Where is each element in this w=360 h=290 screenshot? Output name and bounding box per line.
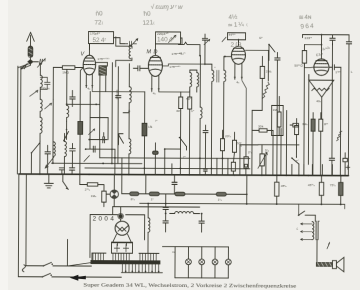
svg-text:3Mₐ: 3Mₐ [302,122,308,126]
wire box C to tube V3 [237,40,239,46]
IF T2 left coil pair [190,70,199,92]
secondary comb 2 [112,253,132,261]
detector resistor vert white [260,56,265,98]
tuning gang box A [88,32,113,44]
svg-text:m: m [172,250,175,254]
svg-text:Super Geadem 34 WL, Wechselstr: Super Geadem 34 WL, Wechselstrom, 2 Vork… [83,282,297,290]
trimmer capacitor right of node [33,59,45,68]
grid resistor horizontal [53,66,83,70]
svg-text:ħ0: ħ0 [143,10,151,17]
capacitor on y140 wire [90,75,108,143]
left rail B [19,67,22,174]
wire x308 cone left [308,75,310,80]
capacitor x332 [330,35,335,45]
junction x247 [246,193,248,195]
coil L5 [64,133,66,174]
heater comb dots [125,270,160,272]
capacitor right of L4 [70,90,76,106]
wire x166 caps [163,194,169,232]
capacitor x277 [274,52,280,175]
resistor below bus 750 dark [339,176,344,205]
wire tube V1 cathode to right [92,88,145,92]
wire main bus [19,174,348,176]
svg-text:ň0: ň0 [95,10,103,17]
rectifier legs [118,243,127,246]
AC source squiggle [22,265,25,272]
mains plug arrow [70,275,79,281]
hum resistor vert x320 [319,113,323,176]
resistor small right x345 [343,153,348,176]
bus junction dots [39,173,342,176]
tube V2 legs [151,75,160,96]
wire lower line right [140,203,345,204]
coil L7 osc secondary [129,64,131,110]
cap horizontal x295 [290,123,298,127]
core lines T2 [217,70,219,82]
trimmer arrow right of L2 [45,103,52,109]
lamp rail top [162,247,228,278]
coil L8 [129,113,131,175]
svg-text:L: L [297,227,299,231]
svg-text:30 ᶜ: 30 ᶜ [176,109,181,113]
svg-text:8ᵖᶜ: 8ᵖᶜ [324,122,328,126]
capacitor across L1 [40,77,50,89]
zigzag resistor diagonal [262,82,269,98]
tube V2 envelope [148,44,162,77]
wire y104.8 link [66,103,100,105]
stepped wire from box A [113,38,124,44]
divider box with resistor [272,96,284,135]
svg-text:M: M [146,49,151,55]
wire rail R3 [85,167,250,170]
lower line junction dots [147,203,341,216]
svg-text:4½: 4½ [228,13,238,22]
potentiometer circle [106,174,118,206]
junction pot bus [113,174,115,176]
wire V3 anode right [238,39,268,50]
wire x247 bus down [246,175,248,194]
wire stub i [291,164,293,175]
screen resistor Ra [178,92,182,175]
horizontal filter coil [170,212,200,214]
svg-text:≈ ʳ: ≈ ʳ [296,159,299,163]
coupling capacitor left of V2 [133,66,148,71]
screen resistor Rb [187,90,191,175]
svg-text:1Mₐ: 1Mₐ [91,194,97,198]
wire cluster left of V2 legs [85,139,122,175]
tuning gang box B [155,32,180,44]
IF transformer T2 primary coil [203,63,213,175]
lamp 1 [185,247,191,278]
coil L4 [67,69,69,139]
resistor vert x296 [294,119,298,157]
horizontal resistor x260 y130 [252,129,273,133]
svg-text:≃1¼ ₍: ≃1¼ ₍ [227,21,249,29]
lamp 4 [225,247,231,278]
trimmer switch mid [45,157,54,168]
wire col x53 down [52,67,54,99]
tuning gang box C [228,33,246,40]
capacitor top x204 with trimmer slash [202,34,210,64]
wire stub l [321,164,323,175]
svg-text:1Mₐ: 1Mₐ [273,108,279,112]
wire resistor to V4 [304,66,314,69]
wire lower distribution line [113,206,200,208]
wire x308 column [307,75,309,165]
wire V2 legs join [152,91,190,92]
svg-text:L: L [351,70,353,74]
wire L3 bottom to bus [39,141,41,174]
heater comb below [121,264,162,273]
wire y203 corner down [299,204,345,215]
wire stub j [303,164,305,175]
pencil diag stroke box B [170,36,177,42]
band switch S1 [31,142,41,174]
rail junction dots [52,157,223,170]
rectifier base skirt [113,234,132,243]
resistor below bus 450k [319,175,324,204]
svg-text:9 6 4: 9 6 4 [300,23,314,31]
switch S2 [118,134,124,145]
trimmer between boxes [124,39,137,47]
resistor white x246 [244,145,249,175]
speaker cone under V4 [309,80,334,97]
trimmer capacitor left of node [21,64,28,69]
coil L5b on rail x53 [53,142,55,156]
switch on speaker line [327,242,330,249]
svg-text:45ᶜₐ: 45ᶜₐ [281,184,288,188]
svg-text:41ₐᵐ: 41ₐᵐ [179,51,186,55]
wire x270 column [272,130,274,175]
small blade near resistor x80 [84,156,90,162]
antenna coil L1 [40,63,42,91]
junction x112 bus [111,163,113,165]
IF transformer T2 secondary coil [222,37,232,138]
switch S3 mid [179,137,187,150]
lamp 2 [199,247,205,278]
svg-text:233ᵖᶜ: 233ᵖᶜ [305,36,312,40]
trimmer arrow small [89,129,95,135]
junction node antenna [28,57,33,65]
capacitor x202 y222 [199,214,204,233]
svg-text:2⁰ᶜₐ: 2⁰ᶜₐ [85,188,91,192]
capacitor above bus x62 [59,168,64,174]
wire V2 anode right [162,64,205,66]
wire stub c [171,164,173,175]
left rail A [16,66,19,174]
svg-text:20⁰ₐ: 20⁰ₐ [225,134,232,138]
output transformer T3 [312,215,319,239]
capacitor below bus x174.7 [172,175,177,194]
resistor chain capsule R22 [175,192,216,196]
capacitor x348 right edge [336,35,351,176]
wire x304 column [303,63,306,175]
resistor chain capsule R23 [216,192,247,196]
hum resistor vert x313 [311,113,315,176]
resistor chain capsule R21 [149,192,175,196]
secondary comb 3 [139,253,159,261]
wire stub d [216,158,218,175]
wire stub e [227,158,229,175]
wire tube V1 top from box A [88,44,90,50]
transformer taps arrows [301,223,313,241]
svg-text:1MΩ: 1MΩ [62,70,69,74]
zigzag right mid [337,131,342,141]
svg-text:72₍: 72₍ [94,19,103,26]
resistor vert 1M [102,185,107,207]
wire x146 chain up [145,175,147,194]
svg-text:50 ᶜ: 50 ᶜ [186,97,191,101]
tube V1 legs [85,74,93,91]
svg-text:500cm: 500cm [40,86,50,90]
svg-text:•: • [214,65,215,69]
lamp 3 [212,247,218,278]
top right feed line [303,34,338,38]
wire x340 to rail [339,134,341,176]
wire x252 column [251,110,253,175]
coil L3 [40,117,42,141]
mains line upper [26,262,92,267]
padder capacitor x118 [115,67,121,164]
wire x112 column [111,63,113,164]
primary comb 1 [92,253,106,261]
wire x113 drop to box [112,207,114,215]
wire V4 grid top [320,35,322,51]
svg-text:¹ ᶜ: ¹ ᶜ [155,119,157,123]
svg-text:30 k: 30 k [258,124,264,128]
resistor below bus 45k [275,175,280,204]
wire stub m [331,165,333,176]
hatched resistor R dark left [78,68,84,175]
wire stub b [164,149,166,175]
svg-text:2004: 2004 [93,216,117,223]
svg-text:≋ 4ɴ: ≋ 4ɴ [298,14,312,22]
wire L1 to L2 [39,91,41,99]
svg-text:121₍: 121₍ [142,19,155,27]
trimmer arrow at L1 bottom [30,90,38,96]
tube V4 envelope [314,51,329,76]
wire L7 to switch [123,110,130,113]
rectifier tube envelope [115,221,129,235]
wire node to rails [18,63,31,69]
rectifier anode cap [118,213,124,221]
mains vertical left outer [17,174,20,277]
tube V3 envelope [231,39,245,64]
wire rail R2 [100,157,250,160]
resistor vert x222 [220,130,224,175]
svg-text:D: D [153,49,157,55]
speaker cone [336,257,344,272]
wire zigzag top [267,50,269,80]
wire V3 cathode down [241,80,247,167]
plus tick near bus end [346,165,350,169]
capacitor pair x205 y131 [203,125,208,175]
svg-text:2 ʃ 3: 2 ʃ 3 [230,42,242,49]
speaker driver [332,261,336,269]
extra vertical wires band [152,143,332,176]
wire anode cap drop [120,207,122,214]
svg-text:75⁰ₐ: 75⁰ₐ [330,183,337,187]
antenna [27,32,35,46]
capacitor above bus x72b [69,168,74,174]
wire stub f [239,145,241,175]
wire x281 column [280,128,282,175]
svg-text:175ⁿᶜᵛ⁶⁰: 175ⁿᶜᵛ⁶⁰ [169,65,181,69]
svg-text:1⁰ᵖᶜ: 1⁰ᵖᶜ [335,70,340,74]
capacitor x72.5 [70,143,76,167]
grid leak resistor x304 [302,44,322,68]
svg-text:50ᶜ: 50ᶜ [237,141,242,145]
wire rail upper left start [52,99,54,163]
wire y144.5 left segment [240,144,258,146]
tube V3 legs [234,63,243,84]
coupling cap right of V4 [329,65,341,134]
switch S4 top right of V3 [268,44,275,61]
filament caps box [111,242,132,253]
wire from box B right to column [178,38,200,56]
wire x262 to x252 [252,109,262,111]
svg-text:7 ʳ: 7 ʳ [183,155,186,159]
wire x122 bus to chain [121,175,123,194]
wire y144.3 segment right [258,144,299,146]
switch blade above L5 [64,129,69,141]
fuse F1 [28,46,33,58]
speaker cone lead [321,97,323,118]
wire mains vertical x68 [66,239,68,265]
switch below bus [63,174,69,189]
mains line lower [18,273,121,278]
capacitor C left chain [45,145,51,174]
IF transformer T1 hatched [95,62,107,139]
coil L2 [40,99,42,117]
mains vertical left inner [25,174,27,266]
svg-text:175ⁿᶜʻ⁶⁰⁰: 175ⁿᶜʻ⁶⁰⁰ [97,56,110,61]
resistor horizontal 20k [79,173,104,186]
tube V1 envelope [83,44,96,75]
lamp rail bottom [175,277,228,279]
svg-text:1ᶜ: 1ᶜ [151,197,154,201]
resistor chain capsule R20 [122,192,149,196]
hatched resistor 1k [142,92,147,175]
choke coil right of rectifier [148,203,150,252]
capacitor on y149.6 wire [89,92,95,175]
speaker magnet bar [316,263,335,267]
svg-text:1 ᶜ: 1 ᶜ [191,109,194,113]
ground [44,174,53,188]
coil L9 [200,56,202,175]
svg-text:52 4ʳ: 52 4ʳ [92,37,106,44]
wire rail upper [52,162,142,164]
svg-text:50⁰ᶜ Ω: 50⁰ᶜ Ω [294,64,303,68]
wire transformer down [316,240,318,263]
wire stub k [311,164,313,175]
oscillator coil L6 [116,37,132,67]
wire x262 bottom [261,98,263,110]
svg-text:√ ɛɯɱ ע ʳ ᴡ: √ ɛɯɱ ע ʳ ᴡ [151,3,183,11]
capacitor below rail x332 [329,44,335,176]
switch S5 below x296 [291,157,299,176]
svg-text:5 3 3 2 4 ʻ: 5 3 3 2 4 ʻ [115,90,120,101]
wire stub h [265,152,267,175]
transformer core bar [91,261,160,264]
svg-text:170pF⁴: 170pF⁴ [90,32,101,36]
trimmer inside box B [169,35,176,42]
svg-text:44⁰ᵖᶜ: 44⁰ᵖᶜ [229,33,236,37]
switch on feed line [298,211,316,216]
wire mains to core [67,262,91,266]
svg-text:1℞: 1℞ [148,125,153,129]
volume pot with arrow [258,145,267,176]
svg-text:45⁰ᶜₐ: 45⁰ᶜₐ [308,183,316,187]
2004 box outline [90,215,145,258]
svg-text:2 Mₐ: 2 Mₐ [266,69,273,73]
wire x286 column [285,111,287,176]
resistor vert x234 [231,132,236,175]
capsule resistor x155.4 [152,143,158,175]
